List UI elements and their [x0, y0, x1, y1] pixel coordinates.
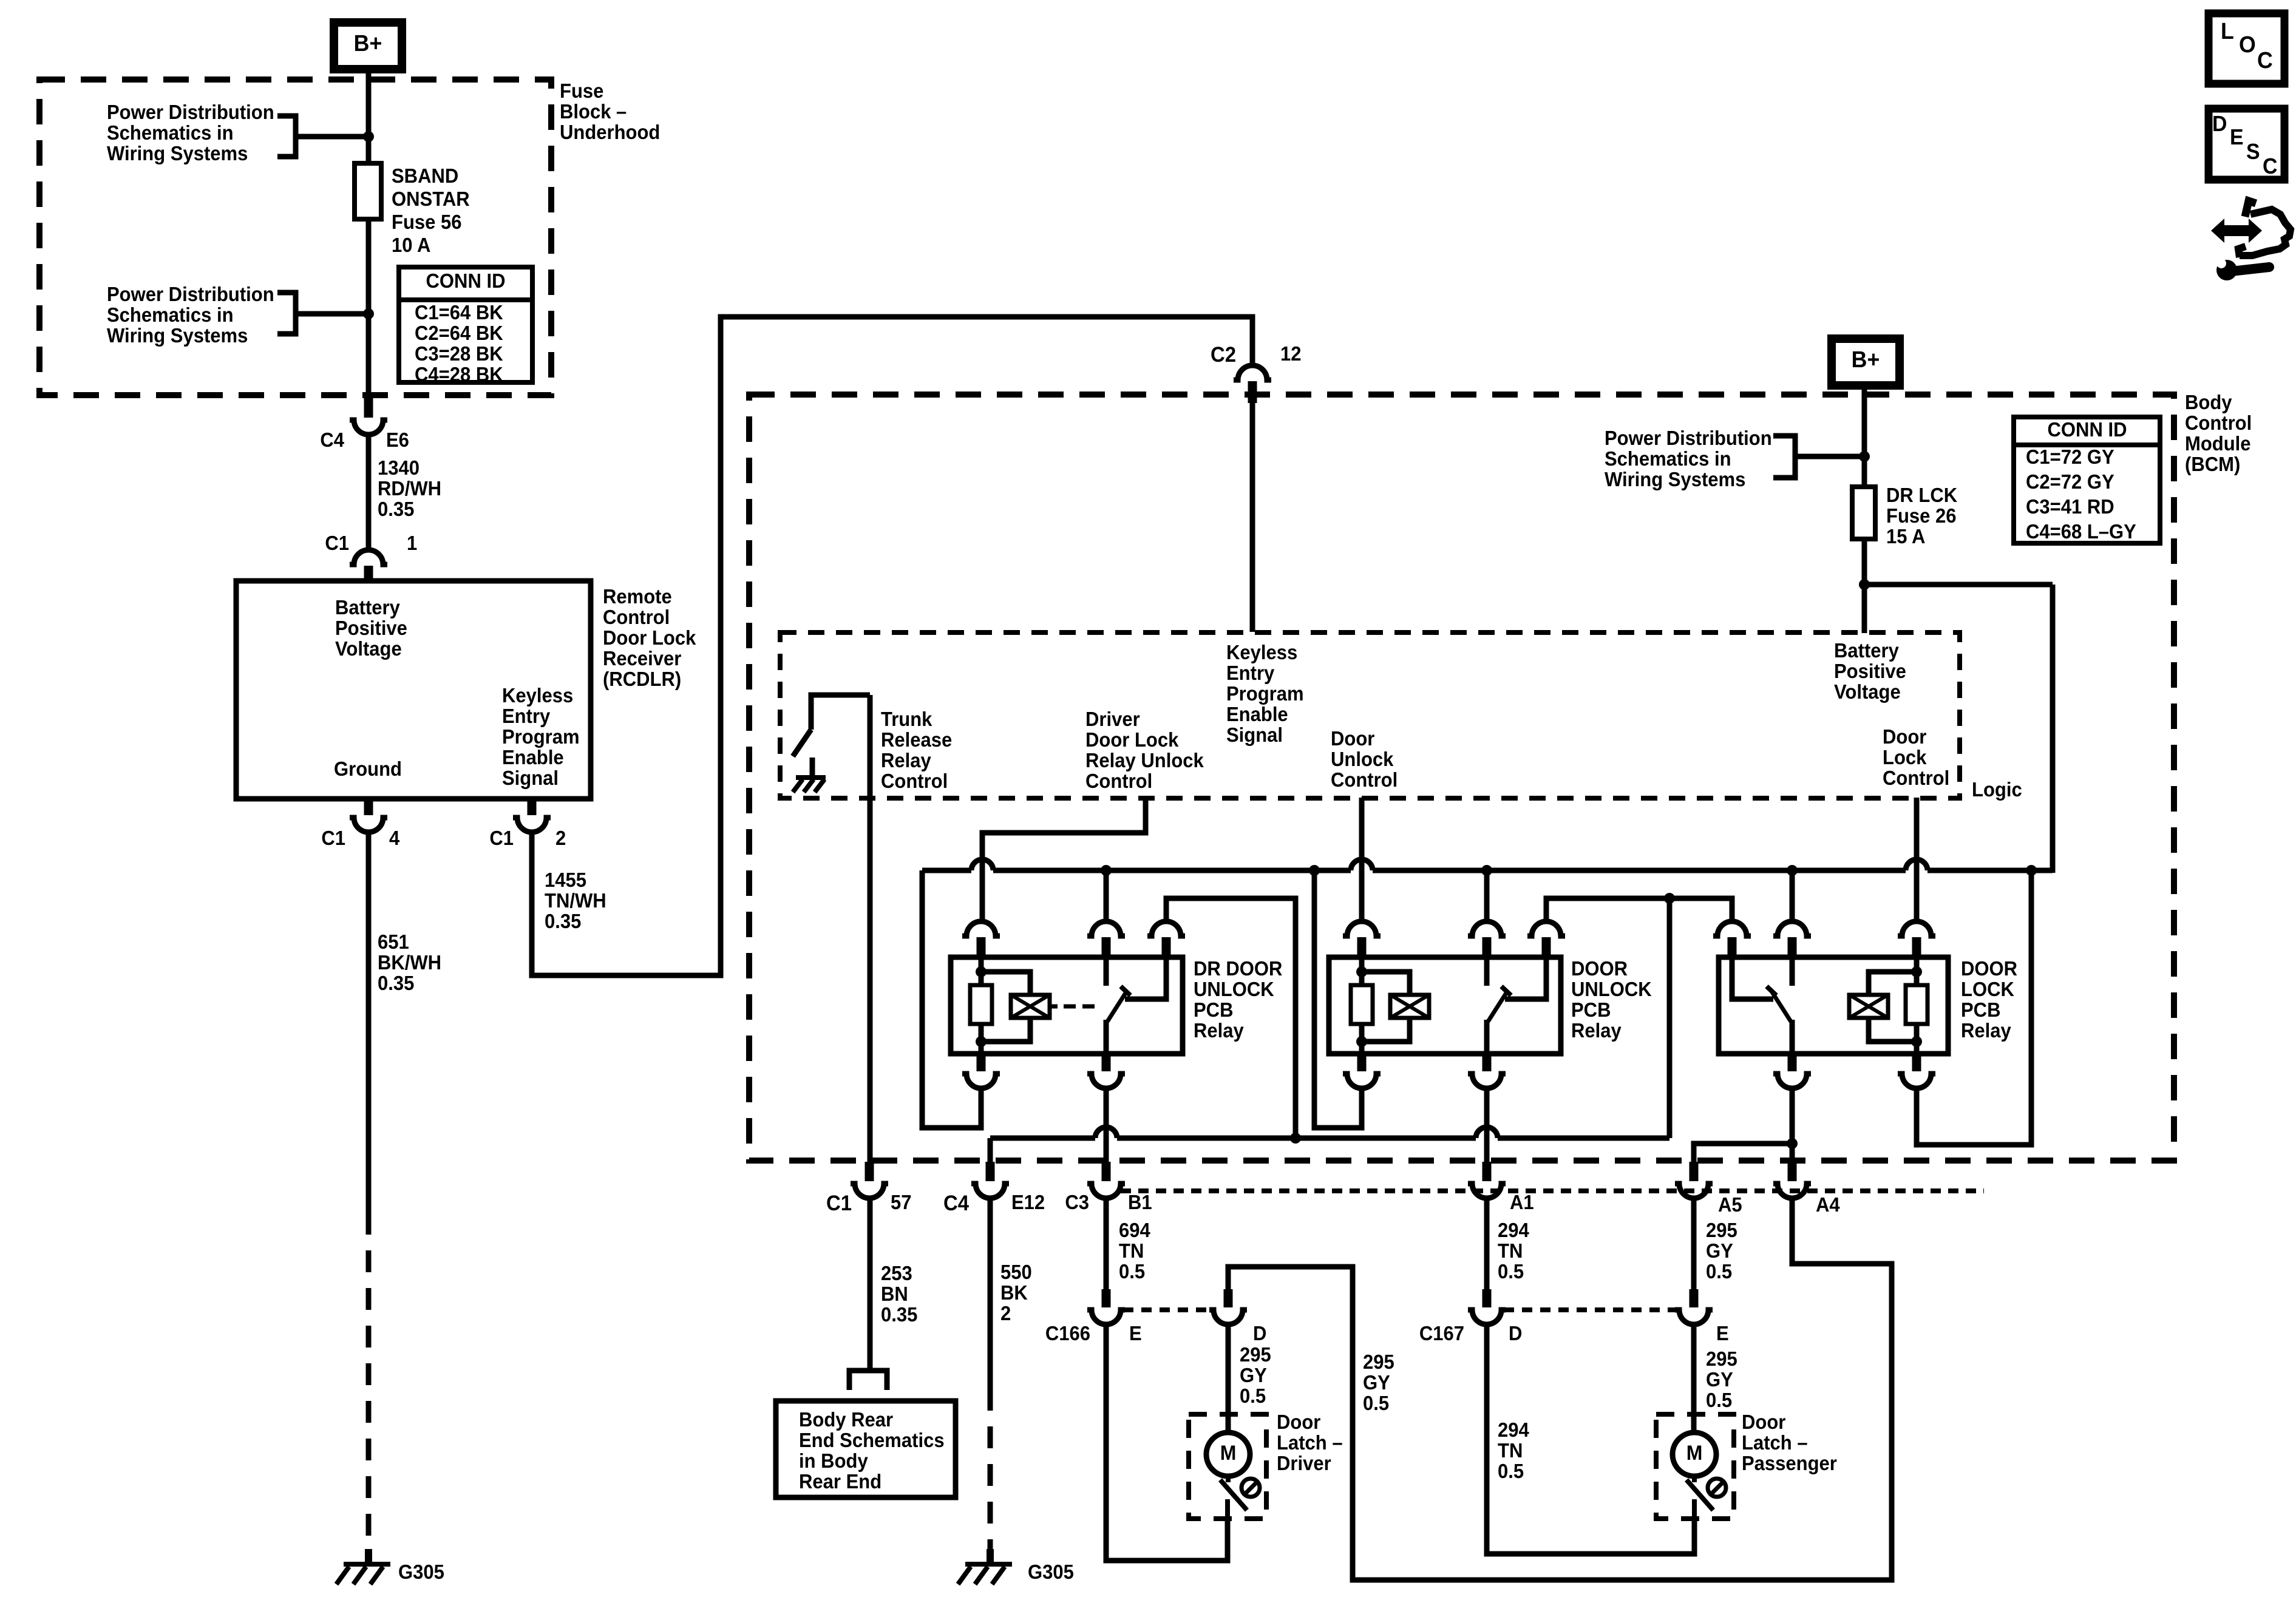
wire bus drop right side — [2050, 585, 2056, 873]
wire 1340 RD/WH — [366, 433, 372, 550]
svg-text:Control: Control — [1085, 770, 1152, 792]
relay K3 NO contact — [1732, 957, 1773, 999]
svg-text:Positive: Positive — [335, 617, 407, 639]
svg-text:Keyless: Keyless — [502, 684, 573, 707]
connector C4/E6 socket — [350, 420, 387, 435]
svg-text:in Body: in Body — [799, 1449, 868, 1472]
connector C4/E12 — [986, 1162, 995, 1181]
relay K1 switch blade — [1107, 991, 1127, 1022]
svg-text:E12: E12 — [1011, 1191, 1045, 1213]
svg-text:E: E — [1716, 1322, 1729, 1344]
svg-text:Power Distribution: Power Distribution — [107, 101, 274, 123]
svg-text:SBAND: SBAND — [392, 164, 458, 187]
connector C166 dashed line — [1123, 1307, 1212, 1312]
svg-text:0.35: 0.35 — [545, 910, 581, 932]
svg-text:10 A: 10 A — [392, 234, 430, 256]
svg-text:Receiver: Receiver — [603, 647, 681, 670]
wire 295 GY from A5 — [1691, 1197, 1697, 1290]
svg-text:(BCM): (BCM) — [2185, 453, 2240, 475]
svg-text:Fuse: Fuse — [560, 80, 603, 102]
svg-text:ONSTAR: ONSTAR — [392, 188, 470, 210]
svg-text:C1=64 BK: C1=64 BK — [415, 301, 503, 324]
wire ground bus (relay NO contacts to 550 BK) — [990, 1136, 1095, 1141]
wire door unlock control — [1359, 798, 1365, 923]
svg-text:C1: C1 — [826, 1192, 852, 1215]
switch driver latch — [1226, 1476, 1231, 1482]
relay K1 coil resistor — [979, 957, 984, 985]
relay K2 switch blade — [1488, 991, 1507, 1022]
svg-text:Body Rear: Body Rear — [799, 1408, 893, 1431]
wire B+ to fuse SBAND — [366, 69, 372, 163]
svg-text:295: 295 — [1240, 1343, 1271, 1366]
latch motor passenger dashed box — [1656, 1414, 1734, 1519]
wire driver door lock relay unlock control — [982, 798, 1146, 923]
relay K1 DR DOOR UNLOCK PCB Relay box — [951, 957, 1183, 1054]
relay K3 coil winding branch — [1869, 972, 1917, 995]
relay K1 switch common stub — [1104, 957, 1109, 986]
wire 651 BK/WH dashed part — [366, 1213, 372, 1551]
svg-text:15 A: 15 A — [1886, 525, 1925, 547]
wire 550 BK solid part — [988, 1197, 993, 1389]
module BCM dashed box — [749, 395, 2174, 1161]
svg-text:Voltage: Voltage — [1834, 680, 1901, 703]
relay K2 coil top pin — [1343, 921, 1381, 936]
svg-text:Schematics in: Schematics in — [107, 303, 234, 326]
relay K1 coil bottom pin — [977, 1051, 986, 1071]
svg-text:DOOR: DOOR — [1571, 957, 1628, 980]
wire fuse to logic battery input — [1862, 539, 1867, 633]
svg-text:CONN ID: CONN ID — [2048, 418, 2127, 441]
svg-text:Door Lock: Door Lock — [1085, 728, 1179, 751]
svg-text:0.5: 0.5 — [1706, 1260, 1732, 1283]
svg-text:Control: Control — [881, 770, 948, 792]
relay K2 coil winding branch — [1362, 972, 1410, 995]
connector A1 — [1483, 1162, 1492, 1181]
svg-text:Wiring Systems: Wiring Systems — [107, 142, 248, 164]
svg-text:Latch –: Latch – — [1277, 1431, 1343, 1454]
connector C1/2 socket — [513, 818, 551, 832]
node junction fuse output — [1859, 579, 1870, 590]
svg-text:253: 253 — [881, 1262, 912, 1284]
svg-text:M: M — [1220, 1441, 1237, 1464]
svg-text:A1: A1 — [1510, 1191, 1534, 1213]
svg-text:G305: G305 — [398, 1561, 444, 1583]
wire A5 branch — [1694, 1144, 1792, 1165]
svg-text:S: S — [2246, 140, 2260, 164]
relay K3 NO contact top pin — [1713, 921, 1751, 936]
fuse F56 SBAND ONSTAR 10A — [355, 163, 381, 219]
svg-text:DOOR: DOOR — [1961, 957, 2017, 980]
svg-text:Signal: Signal — [502, 767, 559, 789]
svg-text:UNLOCK: UNLOCK — [1571, 978, 1652, 1000]
wire keyless signal into logic — [1250, 401, 1255, 632]
connector C3/B1 — [1102, 1162, 1111, 1181]
svg-text:BK: BK — [1000, 1281, 1028, 1304]
latch motor driver dashed box — [1189, 1414, 1266, 1519]
svg-text:A5: A5 — [1718, 1193, 1742, 1216]
wire 1455 TN/WH to BCM C2-12 — [532, 317, 1252, 975]
fuse block dashed box (Fuse Block - Underhood) — [39, 80, 551, 395]
connector C1/4 pin stub — [364, 799, 373, 815]
svg-text:C166: C166 — [1045, 1322, 1090, 1344]
power symbol B+ (BCM feed) — [1832, 339, 1900, 385]
bracket lower PD tap — [277, 293, 296, 334]
svg-text:PCB: PCB — [1194, 998, 1233, 1021]
connector C167 E pin stub — [1690, 1289, 1699, 1307]
wire fuse to C4 connector — [366, 219, 372, 396]
relay K1 coil top pin — [962, 921, 1000, 936]
wire 294 TN from A1 — [1484, 1197, 1490, 1290]
relay K1 switch common top pin — [1087, 921, 1125, 936]
svg-text:C167: C167 — [1419, 1322, 1464, 1344]
wire C166-D to driver latch motor — [1226, 1324, 1231, 1434]
relay K3 coil resistor nodes — [1911, 966, 1922, 977]
svg-text:Door Lock: Door Lock — [603, 626, 696, 649]
module RCDLR box — [236, 581, 591, 799]
svg-text:1: 1 — [407, 532, 417, 554]
svg-text:L: L — [2221, 18, 2234, 44]
svg-text:Rear End: Rear End — [799, 1470, 881, 1493]
svg-text:G305: G305 — [1028, 1561, 1074, 1583]
dotted connector face line — [1121, 1188, 1984, 1193]
svg-text:294: 294 — [1498, 1419, 1529, 1441]
svg-text:TN/WH: TN/WH — [545, 889, 606, 912]
svg-text:UNLOCK: UNLOCK — [1194, 978, 1274, 1000]
motor M passenger latch — [1673, 1432, 1716, 1476]
relay K1 NO contact top pin — [1147, 921, 1185, 936]
connector A5 — [1690, 1162, 1699, 1181]
relay K2 switch output bottom pin — [1483, 1051, 1492, 1071]
svg-text:0.5: 0.5 — [1119, 1260, 1145, 1283]
svg-text:RD/WH: RD/WH — [378, 477, 441, 500]
wire relay3 coil return loop — [1917, 870, 2031, 1145]
motor M driver latch — [1206, 1432, 1250, 1476]
svg-text:Battery: Battery — [335, 596, 400, 619]
svg-text:C4=28 BK: C4=28 BK — [415, 363, 503, 385]
relay K1 coil symbol — [1011, 995, 1050, 1018]
svg-text:Voltage: Voltage — [335, 637, 402, 660]
relay K1 actuator link dashed — [1050, 1005, 1058, 1009]
svg-text:Entry: Entry — [502, 705, 550, 727]
relay K3 switch output bottom pin — [1788, 1051, 1797, 1071]
connector C1/57 — [865, 1162, 874, 1181]
svg-text:Program: Program — [1226, 682, 1304, 705]
svg-text:1340: 1340 — [378, 456, 419, 479]
relay K3 switch blade root — [1790, 1020, 1795, 1054]
wire B+ bus feeding relays — [922, 868, 971, 873]
svg-text:Control: Control — [2185, 412, 2252, 434]
svg-text:C3=41 RD: C3=41 RD — [2026, 495, 2114, 518]
relay K3 switch common top pin — [1773, 921, 1811, 936]
relay K3 switch blade — [1771, 991, 1791, 1022]
svg-text:Keyless: Keyless — [1226, 641, 1297, 663]
svg-text:C3: C3 — [1065, 1191, 1089, 1213]
svg-text:Door: Door — [1331, 727, 1374, 750]
relay K2 coil bottom pin — [1357, 1051, 1367, 1071]
svg-text:C2=64 BK: C2=64 BK — [415, 322, 503, 344]
connector C4/E6 pin stub — [364, 395, 373, 418]
svg-text:0.35: 0.35 — [378, 498, 414, 520]
svg-text:0.35: 0.35 — [881, 1303, 917, 1326]
svg-text:Door: Door — [1742, 1411, 1785, 1433]
svg-text:0.5: 0.5 — [1240, 1385, 1266, 1407]
svg-text:D: D — [1253, 1322, 1266, 1344]
svg-text:295: 295 — [1706, 1219, 1737, 1241]
svg-text:Relay: Relay — [1194, 1019, 1244, 1042]
node junction upper PD tap — [363, 131, 374, 142]
wire ground bus drop to C4/E12 — [988, 1138, 993, 1165]
relay K2 DOOR UNLOCK PCB Relay box — [1329, 957, 1561, 1054]
connector C166 D pin stub — [1224, 1289, 1233, 1307]
relay K2 switch common stub — [1484, 957, 1490, 986]
relay K2 NO contact top pin — [1527, 921, 1565, 936]
svg-text:Control: Control — [1883, 767, 1949, 789]
icon DESC box — [2209, 109, 2284, 180]
svg-text:651: 651 — [378, 931, 409, 953]
wire 694 TN from B1 — [1104, 1197, 1109, 1290]
relay K1 NO contact — [1125, 957, 1166, 999]
wire relay3 switch output to A4 — [1790, 1088, 1795, 1165]
svg-text:PCB: PCB — [1961, 998, 2000, 1021]
svg-text:Body: Body — [2185, 391, 2232, 413]
svg-text:Wiring Systems: Wiring Systems — [107, 324, 248, 347]
svg-text:694: 694 — [1119, 1219, 1150, 1241]
svg-text:TN: TN — [1498, 1239, 1523, 1262]
table CONN ID (BCM) — [2014, 417, 2160, 543]
svg-text:Power Distribution: Power Distribution — [107, 283, 274, 305]
svg-text:1455: 1455 — [545, 869, 586, 891]
connector C166 E socket — [1087, 1310, 1125, 1324]
svg-text:4: 4 — [389, 827, 399, 849]
svg-text:LOCK: LOCK — [1961, 978, 2014, 1000]
svg-text:Module: Module — [2185, 432, 2251, 455]
wire B+ to DR LCK fuse — [1862, 385, 1867, 487]
relay K1 coil winding branch — [981, 972, 1030, 995]
power symbol B+ (fuse block feed) — [334, 22, 402, 69]
wire 253 BN to body rear end — [868, 1197, 873, 1369]
svg-text:Trunk: Trunk — [881, 708, 932, 730]
box Body Rear End Schematics — [776, 1401, 956, 1497]
svg-text:C4: C4 — [320, 429, 344, 451]
svg-text:0.5: 0.5 — [1363, 1392, 1389, 1414]
node junction NO tie — [1664, 893, 1675, 904]
svg-text:C: C — [2257, 47, 2273, 73]
relay K3 switch common stub — [1790, 957, 1795, 986]
relay K3 coil resistor — [1914, 957, 1920, 985]
svg-text:294: 294 — [1498, 1219, 1529, 1241]
svg-text:PCB: PCB — [1571, 998, 1611, 1021]
svg-text:E: E — [1129, 1322, 1142, 1344]
svg-text:Driver: Driver — [1277, 1452, 1331, 1474]
wire C167-D to passenger latch switch — [1487, 1324, 1694, 1554]
wire relay2 switch output to A1 — [1484, 1088, 1490, 1165]
connector C167 D socket — [1468, 1310, 1506, 1324]
svg-text:C4: C4 — [943, 1192, 969, 1215]
connector C167 dashed line — [1504, 1307, 1677, 1312]
icon LOC box — [2209, 13, 2284, 84]
svg-text:O: O — [2239, 32, 2256, 57]
wire relay3 switch common feed — [1790, 870, 1795, 923]
connector C167 E socket — [1675, 1310, 1713, 1324]
relay K1 coil resistor nodes — [976, 966, 987, 977]
wire 550 BK dashed part — [988, 1389, 993, 1551]
svg-text:0.5: 0.5 — [1498, 1460, 1524, 1482]
wire relay2/relay3 NO tie — [1546, 898, 1732, 923]
svg-text:295: 295 — [1706, 1347, 1737, 1370]
svg-text:Logic: Logic — [1972, 778, 2022, 801]
connector C1/1 pin stub — [364, 566, 373, 582]
svg-text:Relay: Relay — [1571, 1019, 1622, 1042]
no-connect symbol driver latch — [1241, 1479, 1260, 1497]
svg-text:C1: C1 — [325, 532, 349, 554]
svg-text:Schematics in: Schematics in — [107, 121, 234, 144]
fuse F26 DR LCK 15A — [1852, 487, 1875, 539]
svg-text:E: E — [2230, 125, 2244, 149]
connector C2/12 socket — [1234, 365, 1271, 380]
wire relay1 switch output to B1 — [1104, 1088, 1109, 1165]
svg-text:0.5: 0.5 — [1498, 1260, 1524, 1283]
svg-text:DR DOOR: DR DOOR — [1194, 957, 1282, 980]
svg-text:Passenger: Passenger — [1742, 1452, 1837, 1474]
svg-text:Entry: Entry — [1226, 662, 1274, 684]
svg-text:Fuse 26: Fuse 26 — [1886, 504, 1956, 527]
svg-text:M: M — [1686, 1441, 1703, 1464]
svg-text:C1=72 GY: C1=72 GY — [2026, 446, 2114, 468]
svg-text:Power Distribution: Power Distribution — [1605, 427, 1772, 449]
svg-text:Unlock: Unlock — [1331, 748, 1394, 770]
svg-text:Underhood: Underhood — [560, 121, 660, 143]
svg-text:D: D — [2212, 112, 2227, 136]
svg-text:(RCDLR): (RCDLR) — [603, 668, 681, 690]
bracket to body rear end box — [849, 1371, 887, 1390]
svg-text:550: 550 — [1000, 1261, 1032, 1283]
svg-text:BN: BN — [881, 1283, 908, 1305]
svg-text:GY: GY — [1706, 1368, 1733, 1391]
svg-text:Relay: Relay — [881, 749, 931, 771]
connector C1/1 socket — [350, 550, 387, 564]
node junction lower PD tap — [363, 308, 374, 319]
wire C166-D to A4 loop — [1228, 1197, 1892, 1580]
relay K2 switch common top pin — [1468, 921, 1506, 936]
bracket PD tap (BCM) — [1773, 436, 1795, 478]
relay K2 coil resistor nodes — [1356, 966, 1367, 977]
wire relay2 coil return loop — [1314, 870, 1362, 1128]
svg-text:B+: B+ — [1852, 347, 1880, 372]
wire 651 BK/WH solid part — [366, 832, 372, 1213]
relay K3 DOOR LOCK PCB Relay box — [1719, 957, 1948, 1054]
svg-text:C3=28 BK: C3=28 BK — [415, 342, 503, 365]
relay K2 coil resistor — [1359, 957, 1365, 985]
relay K1 switch output bottom pin — [1102, 1051, 1111, 1071]
svg-text:BK/WH: BK/WH — [378, 951, 441, 974]
relay K3 coil symbol — [1849, 995, 1888, 1018]
svg-text:A4: A4 — [1816, 1193, 1840, 1216]
icon adjust hand with arrows and wrench — [2211, 219, 2262, 243]
relay K1 switch blade root — [1104, 1020, 1109, 1054]
svg-text:C4=68 L–GY: C4=68 L–GY — [2026, 520, 2136, 543]
svg-text:Lock: Lock — [1883, 746, 1927, 768]
wire door lock control — [1914, 798, 1920, 923]
svg-text:E6: E6 — [386, 429, 409, 451]
svg-text:D: D — [1509, 1322, 1522, 1344]
relay K3 coil bottom pin — [1912, 1051, 1921, 1071]
svg-text:TN: TN — [1119, 1239, 1144, 1262]
svg-text:Remote: Remote — [603, 585, 672, 608]
svg-text:Door: Door — [1277, 1411, 1320, 1433]
svg-text:Wiring Systems: Wiring Systems — [1605, 468, 1745, 490]
switch passenger latch — [1692, 1476, 1697, 1482]
connector C1/4 socket — [350, 818, 387, 832]
svg-text:Program: Program — [502, 725, 580, 748]
relay K2 NO contact — [1505, 957, 1546, 999]
svg-text:12: 12 — [1280, 342, 1302, 365]
wire NO tie to ground bus — [1667, 898, 1673, 1138]
wire relay1 coil return loop — [922, 870, 981, 1128]
no-connect symbol passenger latch — [1708, 1479, 1726, 1497]
table CONN ID (fuse block) — [399, 267, 532, 382]
svg-text:GY: GY — [1706, 1239, 1733, 1262]
svg-text:0.5: 0.5 — [1706, 1389, 1732, 1411]
svg-text:Block –: Block – — [560, 100, 627, 123]
svg-text:B1: B1 — [1128, 1191, 1152, 1213]
svg-text:295: 295 — [1363, 1351, 1394, 1373]
relay K2 coil symbol — [1390, 995, 1429, 1018]
svg-text:C1: C1 — [489, 827, 514, 849]
connector C2/12 pin stub — [1248, 381, 1257, 403]
node junction A5 branch — [1787, 1138, 1798, 1149]
relay K3 coil top pin — [1898, 921, 1935, 936]
svg-text:GY: GY — [1240, 1364, 1267, 1386]
bracket upper PD tap — [277, 116, 296, 157]
svg-text:C2: C2 — [1211, 343, 1236, 367]
svg-text:TN: TN — [1498, 1439, 1523, 1462]
svg-text:Control: Control — [603, 606, 670, 628]
svg-text:C1: C1 — [321, 827, 345, 849]
wire relay1 switch common feed — [1104, 870, 1109, 923]
svg-text:2: 2 — [555, 827, 566, 849]
connector C1/2 pin stub — [528, 799, 537, 815]
wire fuse junction to bus drop — [1864, 582, 2053, 588]
svg-text:Enable: Enable — [1226, 703, 1288, 725]
svg-text:End Schematics: End Schematics — [799, 1429, 945, 1451]
svg-text:Door: Door — [1883, 725, 1926, 748]
wire trunk release relay control to C1/57 — [868, 695, 873, 1165]
svg-text:B+: B+ — [354, 30, 382, 56]
svg-text:Enable: Enable — [502, 746, 564, 768]
svg-text:Signal: Signal — [1226, 724, 1283, 746]
ground symbol trunk release — [796, 775, 826, 780]
ground G305 right — [987, 1549, 994, 1564]
connector A4 — [1788, 1162, 1797, 1181]
svg-text:Battery: Battery — [1834, 639, 1899, 662]
wire C166-E to driver latch switch — [1106, 1324, 1228, 1561]
svg-text:GY: GY — [1363, 1371, 1390, 1394]
logic dashed box — [780, 632, 1960, 798]
node junction PD tap (BCM) — [1859, 451, 1870, 462]
svg-text:Relay Unlock: Relay Unlock — [1085, 749, 1204, 771]
svg-text:C2=72 GY: C2=72 GY — [2026, 470, 2114, 493]
svg-text:Driver: Driver — [1085, 708, 1140, 730]
svg-text:Schematics in: Schematics in — [1605, 447, 1731, 470]
relay K2 switch blade root — [1484, 1020, 1490, 1054]
wire C167-E to passenger latch motor — [1691, 1324, 1697, 1434]
svg-text:Latch –: Latch – — [1742, 1431, 1808, 1454]
connector C166 E pin stub — [1102, 1289, 1111, 1307]
wire relay1 NO to ground bus — [1166, 898, 1296, 1138]
svg-text:57: 57 — [891, 1191, 912, 1213]
svg-text:Ground: Ground — [334, 758, 402, 780]
svg-text:DR LCK: DR LCK — [1886, 484, 1957, 506]
